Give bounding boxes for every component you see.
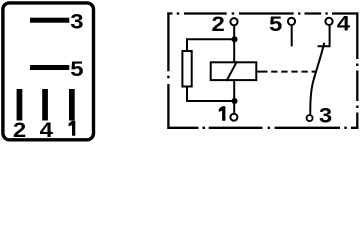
pin 4 blade: [42, 89, 48, 121]
dash-dot enclosure right edge: [356, 12, 358, 128]
svg-text:3: 3: [70, 10, 83, 33]
top junction node: [231, 36, 237, 42]
svg-text:4: 4: [40, 118, 54, 141]
svg-text:2: 2: [211, 13, 224, 36]
coil actuation lead: [257, 71, 267, 73]
pin 1 label (package): [69, 121, 76, 136]
pin 4 fixed contact wire: [318, 26, 330, 47]
pin 1 label (schematic): [219, 106, 226, 120]
pin 1 terminal circle: [230, 114, 237, 121]
coil diagonal: [226, 61, 237, 81]
wire top junction to coil top: [233, 39, 235, 61]
pin 5 terminal circle: [288, 18, 295, 25]
actuation dashed link: [271, 71, 316, 73]
dash-dot enclosure top edge: [167, 12, 358, 14]
relay coil: [211, 62, 257, 80]
pin 3 terminal bar: [30, 18, 69, 23]
svg-text:5: 5: [70, 57, 83, 80]
pin 5 terminal bar: [30, 65, 69, 70]
bottom junction node: [231, 98, 237, 104]
pin 1 blade: [69, 89, 75, 121]
svg-text:5: 5: [269, 13, 282, 36]
pin 2 blade: [17, 89, 23, 121]
dash-dot enclosure left edge: [167, 12, 169, 128]
svg-text:4: 4: [337, 12, 351, 35]
pin 5 stub wire: [291, 26, 293, 47]
wire pin2 to top junction: [233, 26, 235, 40]
wire top junction to resistor top: [187, 39, 235, 50]
resistor (parallel): [182, 51, 191, 87]
svg-text:3: 3: [319, 104, 332, 127]
wire coil bottom to bottom junction: [233, 81, 235, 101]
svg-text:2: 2: [13, 118, 26, 141]
pin 4 terminal circle: [325, 18, 332, 25]
dash-dot enclosure bottom edge: [167, 127, 358, 129]
relay package outline: [3, 3, 94, 140]
wire bottom junction to pin 1: [233, 101, 235, 113]
pin 3 terminal circle: [307, 115, 313, 121]
pin 2 terminal circle: [230, 18, 237, 25]
switch armature: [310, 43, 324, 115]
wire resistor bottom to bottom junction: [187, 87, 235, 101]
